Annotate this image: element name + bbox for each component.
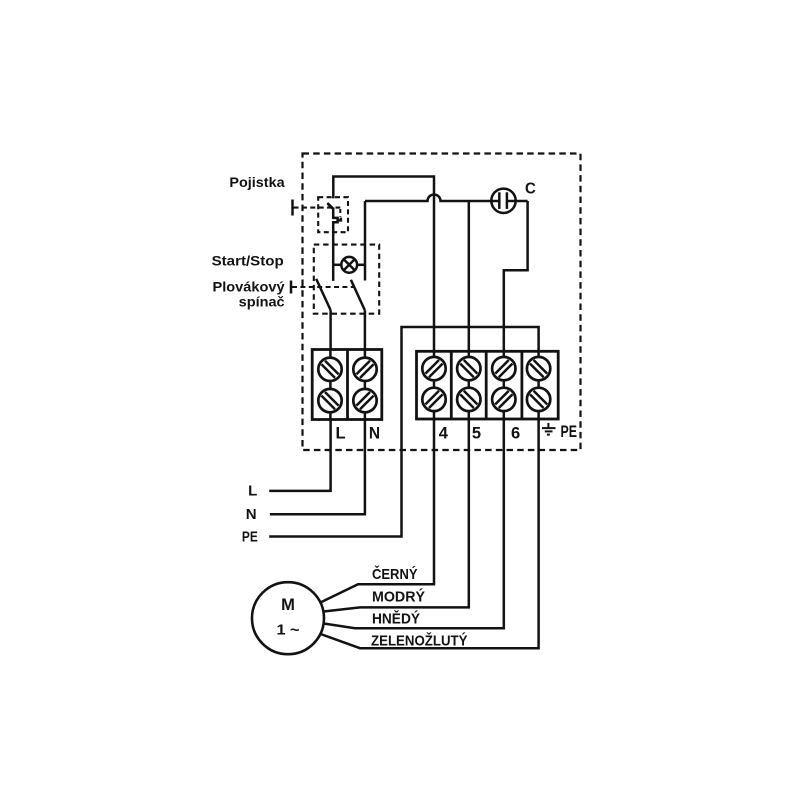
svg-text:6: 6	[511, 425, 520, 443]
svg-text:4: 4	[439, 425, 449, 443]
svg-text:spínač: spínač	[239, 294, 285, 310]
wire: pole-N bottom to terminal block	[364, 310, 367, 419]
motor M 1~	[252, 582, 324, 654]
svg-text:PE: PE	[242, 529, 258, 546]
screw terminal 4 bottom	[422, 388, 445, 411]
lamp leads	[333, 264, 341, 267]
earth symbol at PE terminal	[542, 423, 556, 435]
screw terminal 5 top	[457, 357, 480, 380]
wire inside block 6	[503, 351, 506, 419]
svg-text:L: L	[336, 425, 346, 443]
switch box dashed (float switch)	[314, 245, 379, 314]
capacitor C	[491, 189, 515, 213]
screw terminal 6 bottom	[492, 388, 515, 411]
enclosure dashed box	[303, 154, 581, 451]
wire: horizontal bus with hump over terminal-4 wire	[365, 195, 528, 201]
svg-text:Pojistka: Pojistka	[229, 174, 284, 190]
svg-text:PE: PE	[561, 423, 578, 441]
breaker trip linkage dashed	[339, 209, 341, 217]
wire inside block N	[364, 350, 367, 420]
wire: pole-L bottom to terminal block	[329, 310, 332, 419]
wire: capacitor branch to terminal 6	[504, 201, 528, 351]
float switch pole-L blade	[316, 279, 330, 310]
svg-text:HNĚDÝ: HNĚDÝ	[372, 610, 420, 628]
terminal block L-N body	[312, 350, 382, 420]
screw terminal PE bottom	[527, 388, 550, 411]
screw terminal N bottom	[353, 389, 376, 412]
float switch pole-N blade	[351, 280, 365, 310]
wire inside block 4	[433, 351, 436, 419]
wire inside block PE	[537, 351, 540, 419]
leader tick Plovákový	[290, 281, 293, 294]
wire inside block 5	[468, 351, 471, 419]
wire: terminal 5 drop from bus	[468, 201, 471, 351]
svg-text:N: N	[246, 506, 257, 523]
svg-text:1 ~: 1 ~	[277, 623, 300, 639]
screw terminal L bottom	[318, 389, 341, 412]
breaker trip hook	[338, 218, 341, 221]
screw terminal 6 top	[492, 357, 515, 380]
terminal block 4-5-6-PE body	[417, 351, 559, 419]
screw terminal N top	[353, 358, 376, 381]
svg-text:ČERNÝ: ČERNÝ	[372, 565, 418, 583]
svg-text:ZELENOŽLUTÝ: ZELENOŽLUTÝ	[371, 632, 468, 650]
screw terminal 5 bottom	[457, 388, 480, 411]
svg-text:Plovákový: Plovákový	[213, 279, 285, 295]
leader dashed line Plovákový	[292, 286, 354, 288]
lamp (Start/Stop indicator)	[341, 257, 357, 273]
wire: terminal 5 to motor (blue)	[324, 420, 469, 612]
svg-text:M: M	[281, 596, 295, 614]
breaker blade	[328, 204, 333, 209]
wire: terminal 6 to motor (brown)	[324, 420, 504, 629]
wire inside block L	[329, 350, 332, 420]
screw terminal PE top	[527, 357, 550, 380]
svg-text:MODRÝ: MODRÝ	[372, 588, 425, 606]
svg-text:Start/Stop: Start/Stop	[212, 253, 284, 269]
svg-text:N: N	[369, 425, 380, 443]
wire: terminal 4 to motor (black)	[320, 420, 434, 603]
svg-text:L: L	[248, 483, 257, 500]
svg-text:5: 5	[472, 425, 481, 443]
leader tick Pojistka	[291, 200, 294, 216]
wire: terminal PE to motor (green-yellow)	[321, 420, 539, 649]
leader dashed line Pojistka	[294, 207, 341, 209]
wire: N-side drop from node to lamp/switch	[364, 201, 367, 281]
fuse box dashed (motor protector Pojistka)	[318, 197, 348, 232]
breaker thermal release step and output wire	[333, 208, 337, 281]
wire: terminal N to label N	[270, 420, 365, 515]
svg-text:C: C	[525, 180, 536, 197]
screw terminal 4 top	[422, 357, 445, 380]
wire: PE riser from label PE to terminal PE	[269, 327, 538, 537]
wire: terminal L to label L	[269, 420, 330, 491]
wire: fuse top to terminal 4 (over-crossing vertical)	[333, 177, 434, 352]
screw terminal L top	[318, 358, 341, 381]
